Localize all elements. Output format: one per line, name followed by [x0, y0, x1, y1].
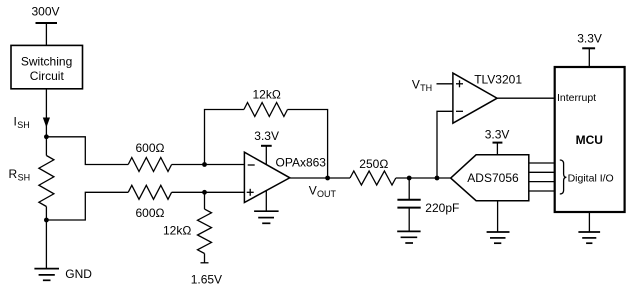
label 12k feedback — [253, 88, 281, 102]
label GND — [65, 267, 92, 281]
svg-text:3.3V: 3.3V — [485, 128, 510, 142]
node capacitor tap — [407, 176, 412, 181]
resistor 250 ohm — [350, 171, 396, 185]
wire 250 ohm to ADC input — [396, 177, 451, 179]
resistor 600 ohm top — [128, 158, 171, 172]
svg-text:3.3V: 3.3V — [254, 129, 279, 143]
label TLV3201 — [474, 73, 522, 87]
svg-text:TLV3201: TLV3201 — [474, 73, 522, 87]
switching circuit block — [11, 45, 83, 88]
supply 3.3V ADC — [485, 128, 510, 155]
wire node to comparator inverting input — [437, 111, 453, 178]
node comparator tap — [435, 176, 440, 181]
svg-text:MCU: MCU — [576, 133, 603, 147]
svg-text:12kΩ: 12kΩ — [163, 224, 191, 238]
capacitor 220pF — [397, 178, 420, 231]
svg-text:ADS7056: ADS7056 — [467, 171, 519, 185]
brace digital IO group — [560, 160, 567, 194]
svg-text:300V: 300V — [32, 4, 60, 18]
wire op-amp output — [290, 177, 350, 179]
supply 3.3V MCU — [577, 32, 602, 68]
label OPAx863 — [276, 156, 327, 170]
svg-text:Digital I/O: Digital I/O — [568, 172, 614, 184]
supply 300V bar — [36, 22, 58, 24]
label VOUT — [309, 183, 337, 199]
resistor RSH — [39, 137, 54, 220]
resistor 12k to 1.65V — [198, 192, 212, 262]
node top of RSH — [44, 134, 49, 139]
op-amp U1 OPAx863 — [244, 152, 289, 202]
svg-text:600Ω: 600Ω — [136, 206, 165, 220]
node noninverting input junction — [202, 190, 207, 195]
svg-text:V: V — [412, 78, 420, 92]
svg-text:600Ω: 600Ω — [136, 141, 165, 155]
wire VTH to comparator — [437, 83, 453, 85]
svg-text:TH: TH — [420, 83, 432, 93]
svg-text:Switching: Switching — [21, 55, 72, 69]
resistor 600 ohm bottom — [128, 185, 171, 199]
label ADS7056 — [467, 171, 519, 185]
label Digital IO — [568, 172, 614, 184]
svg-text:Interrupt: Interrupt — [557, 92, 596, 104]
svg-text:12kΩ: 12kΩ — [253, 88, 281, 102]
label VTH — [412, 78, 432, 94]
wire comparator output to MCU interrupt — [497, 97, 555, 99]
svg-text:220pF: 220pF — [425, 201, 459, 215]
svg-text:Circuit: Circuit — [30, 69, 65, 83]
supply 3.3V op-amp — [254, 129, 279, 165]
svg-text:R: R — [9, 167, 18, 181]
ground GND — [34, 269, 59, 281]
ADC U3 ADS7056 — [451, 155, 529, 201]
ground ADC — [487, 201, 510, 244]
wire 600 bottom to op-amp noninverting input — [172, 191, 245, 193]
feedback wire up from inverting node — [205, 110, 244, 165]
comparator U2 TLV3201 — [453, 73, 497, 123]
ground op-amp — [254, 191, 279, 224]
svg-text:SH: SH — [17, 120, 30, 130]
label 220pF — [425, 201, 459, 215]
label 250 ohm — [359, 157, 388, 171]
ground capacitor — [397, 231, 420, 243]
svg-text:GND: GND — [65, 267, 92, 281]
label ISH — [14, 115, 30, 131]
svg-text:OUT: OUT — [317, 189, 337, 199]
svg-text:OPAx863: OPAx863 — [276, 156, 327, 170]
svg-text:3.3V: 3.3V — [577, 32, 602, 46]
label 1.65V — [191, 273, 222, 287]
svg-text:250Ω: 250Ω — [359, 157, 388, 171]
wire RSH to ground — [45, 220, 47, 269]
node bottom of RSH — [44, 218, 49, 223]
MCU block — [555, 67, 625, 212]
resistor 12k feedback — [244, 103, 288, 117]
node feedback to output — [325, 176, 330, 181]
label RSH — [9, 167, 31, 183]
terminal 1.65V — [201, 262, 209, 264]
label 600 ohm top — [136, 141, 165, 155]
wire 600 top to op-amp inverting input — [172, 164, 245, 166]
svg-text:V: V — [309, 183, 317, 197]
label 12k bottom — [163, 224, 191, 238]
wires ADC digital bus to MCU — [529, 163, 555, 191]
wire 300V to switching circuit — [45, 23, 47, 45]
wire bottom node to bottom 600 resistor — [46, 192, 128, 220]
wire switching circuit to node, current arrow ISH — [43, 89, 50, 137]
wire top node to top 600 resistor — [46, 137, 128, 165]
label 600 ohm bottom — [136, 206, 165, 220]
node inverting input junction — [202, 162, 207, 167]
ground MCU — [578, 212, 600, 243]
feedback wire down to output — [288, 110, 328, 179]
svg-text:1.65V: 1.65V — [191, 273, 222, 287]
svg-text:SH: SH — [18, 173, 31, 183]
supply 300V label — [32, 4, 60, 18]
